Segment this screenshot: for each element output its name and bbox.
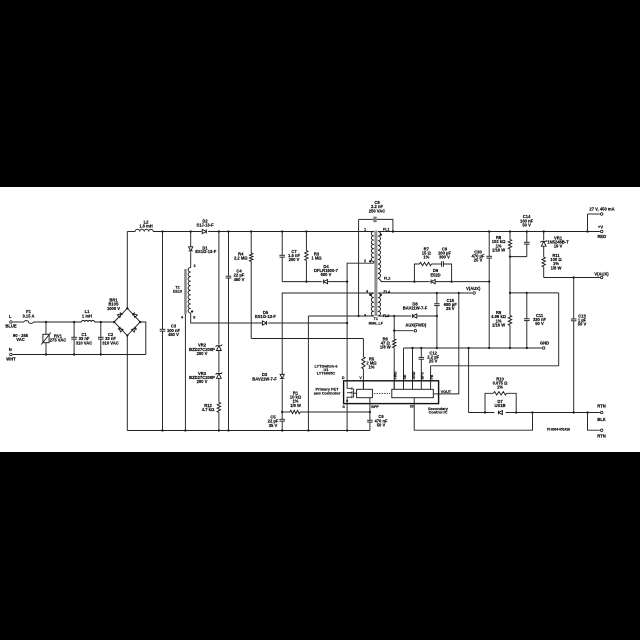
svg-text:2: 2 xyxy=(364,259,366,263)
svg-text:SR: SR xyxy=(403,374,407,379)
svg-text:FL1: FL1 xyxy=(383,228,390,232)
svg-text:3: 3 xyxy=(364,313,366,317)
svg-text:C131 µF50 V: C131 µF50 V xyxy=(578,313,587,326)
svg-text:GND: GND xyxy=(540,340,549,345)
svg-text:RTN: RTN xyxy=(597,433,606,438)
svg-text:WHT: WHT xyxy=(6,356,16,361)
svg-text:27 V, 450 mA: 27 V, 450 mA xyxy=(589,207,614,212)
svg-text:AUX(FWD): AUX(FWD) xyxy=(405,322,427,327)
svg-text:BLUE: BLUE xyxy=(5,324,17,329)
svg-text:Primary FETand Controller: Primary FETand Controller xyxy=(314,387,341,396)
svg-text:1: 1 xyxy=(364,228,366,232)
svg-text:IS: IS xyxy=(410,404,414,408)
svg-text:BLK: BLK xyxy=(597,417,606,422)
svg-text:FL3: FL3 xyxy=(383,314,390,318)
svg-text:FWD: FWD xyxy=(394,371,398,379)
svg-text:8: 8 xyxy=(193,315,195,319)
svg-text:RED: RED xyxy=(597,234,606,239)
svg-text:RTN: RTN xyxy=(597,403,606,408)
svg-text:FL4: FL4 xyxy=(384,290,392,294)
svg-text:GND: GND xyxy=(412,371,416,379)
svg-text:FB: FB xyxy=(430,374,434,379)
svg-text:BPP: BPP xyxy=(371,405,379,409)
svg-text:V(AUX): V(AUX) xyxy=(466,286,481,291)
svg-text:V(AUX): V(AUX) xyxy=(594,271,609,276)
svg-text:FL2: FL2 xyxy=(384,277,391,281)
svg-text:3: 3 xyxy=(194,264,196,268)
svg-text:N: N xyxy=(9,347,12,352)
svg-text:SecondaryControl IC: SecondaryControl IC xyxy=(428,406,449,414)
svg-text:ES1G-13-F: ES1G-13-F xyxy=(195,249,216,254)
svg-text:VOUT: VOUT xyxy=(441,390,452,394)
svg-text:BPS: BPS xyxy=(421,372,425,380)
svg-text:+V: +V xyxy=(598,225,603,230)
svg-text:PI-8994-051418: PI-8994-051418 xyxy=(547,427,570,431)
svg-text:D: D xyxy=(342,376,345,380)
